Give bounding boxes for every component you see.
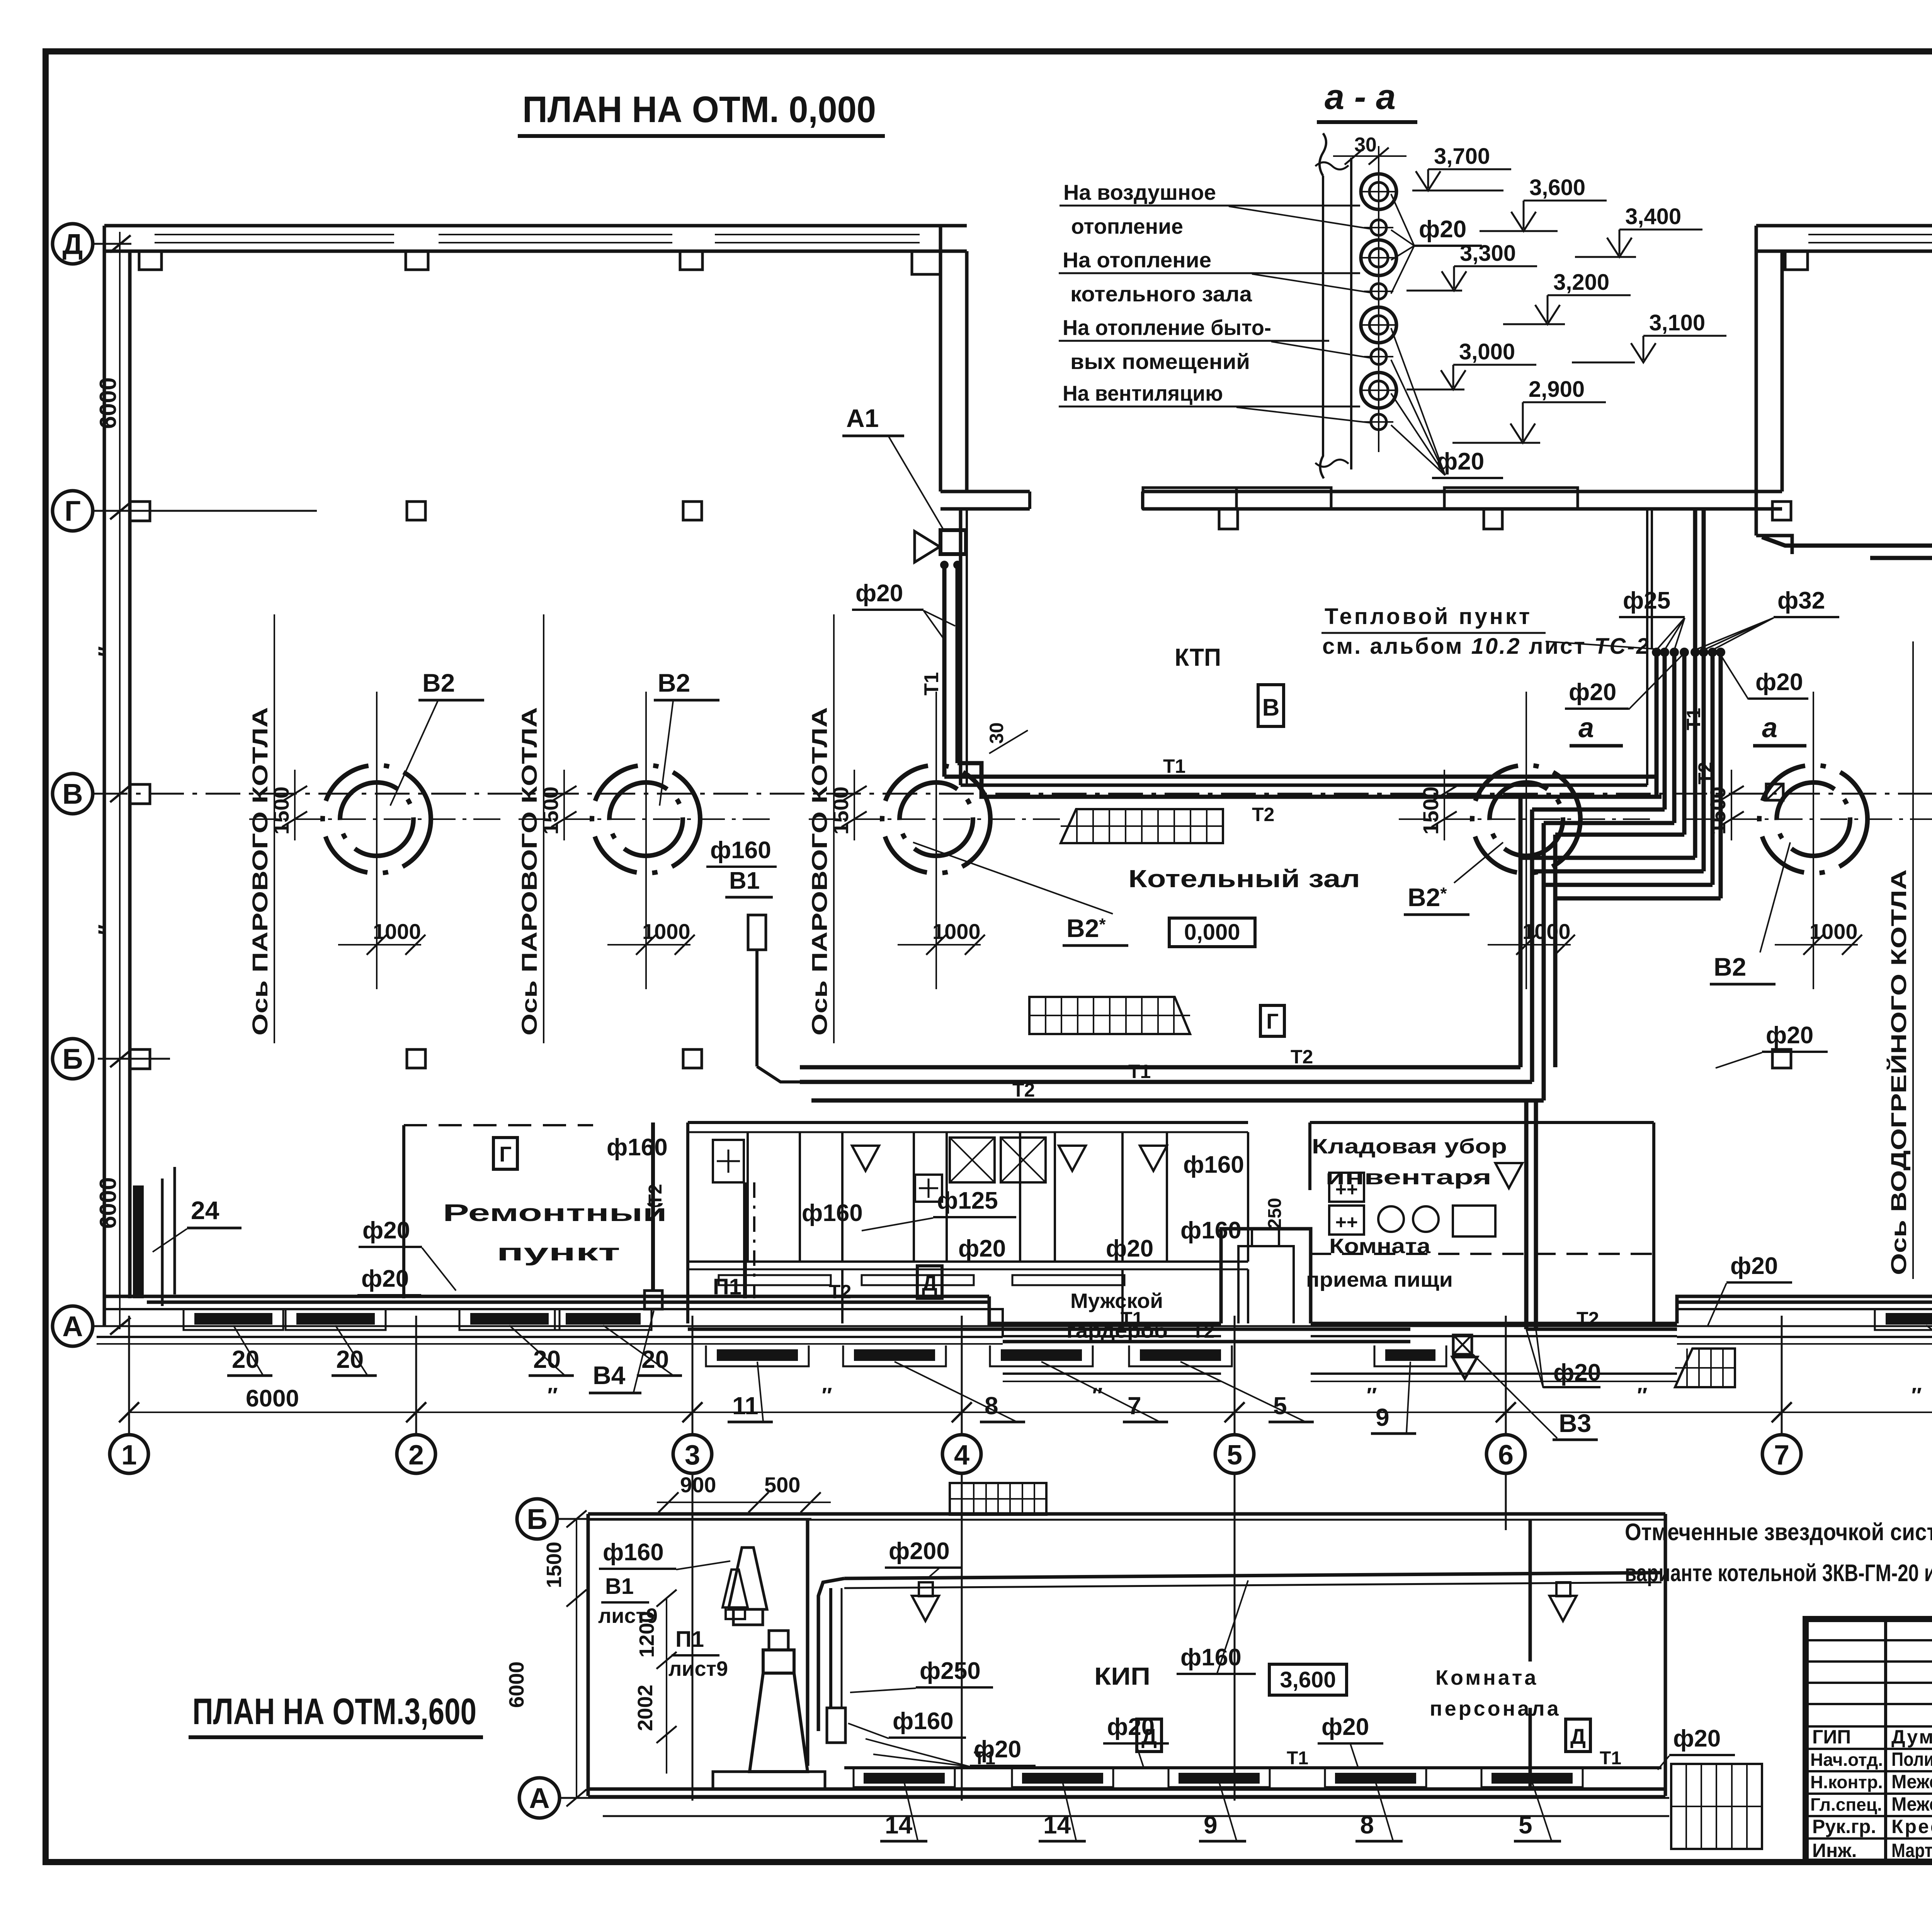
- svg-text:1000: 1000: [932, 919, 981, 944]
- bundle pipe 1 dot: [1652, 648, 1661, 657]
- pipe outlet small: [1371, 414, 1386, 430]
- radiator: [854, 1349, 935, 1361]
- Ф200 pipe: [844, 1573, 1662, 1578]
- urinal squares: [1329, 1173, 1364, 1202]
- boiler 2 axis line: [543, 614, 544, 1043]
- dim tick at axis А: [110, 1318, 131, 1335]
- В4 marker и riser: [651, 1122, 655, 1291]
- bundle risers up to wall: [1693, 509, 1697, 652]
- svg-text:500: 500: [764, 1473, 800, 1497]
- svg-text:лист9: лист9: [668, 1657, 728, 1680]
- svg-text:А: А: [529, 1782, 549, 1814]
- svg-text:3,000: 3,000: [1459, 339, 1515, 364]
- a-a underline: [1317, 120, 1417, 124]
- partition: [913, 1132, 915, 1262]
- column on axis Г: [407, 502, 425, 520]
- bundle pipe 4 dot: [1680, 648, 1689, 657]
- grid axis 5 line: [1234, 1316, 1236, 1435]
- radiator: [194, 1313, 272, 1325]
- middle wall pier 2: [1444, 488, 1578, 509]
- wavy top: [1315, 162, 1349, 170]
- dim chain outer: [576, 1519, 577, 1798]
- bundle pipe 7 dot: [1708, 648, 1717, 657]
- svg-text:ф20: ф20: [1766, 1022, 1813, 1049]
- svg-text:Тепловой пункт: Тепловой пункт: [1325, 604, 1532, 629]
- middle wall pier divider: [1235, 488, 1238, 509]
- column tick below middle wall 2: [1484, 509, 1502, 529]
- bundle pipe 1: [1655, 652, 1659, 797]
- boiler 2 horizontal centerline: [519, 818, 774, 820]
- window glazing lines: [1808, 234, 1932, 235]
- svg-text:1500: 1500: [1418, 786, 1443, 835]
- svg-text:1000: 1000: [1810, 919, 1858, 944]
- svg-text:Поливанов: Поливанов: [1891, 1748, 1932, 1770]
- entrance vestibule: [1221, 1229, 1311, 1323]
- ground line outer 2: [1677, 1336, 1932, 1338]
- boiler 2 outer circle: [592, 765, 700, 873]
- boiler 4 vertical centerline: [1526, 692, 1527, 989]
- pipe run left low 2: [1532, 871, 1704, 1082]
- svg-text:9: 9: [1204, 1811, 1218, 1839]
- svg-text:Ось ВОДОГРЕЙНОГО КОТЛА: Ось ВОДОГРЕЙНОГО КОТЛА: [1886, 869, 1911, 1275]
- svg-text:Д: Д: [1570, 1724, 1586, 1748]
- partition: [1247, 1132, 1249, 1262]
- axis А circle: [53, 1306, 93, 1346]
- vent box Д: [1137, 1719, 1162, 1752]
- bundle pipe 5: [1693, 652, 1697, 858]
- riser to bottom wall: [1524, 1100, 1529, 1329]
- risers to sanitary 1: [1519, 797, 1523, 858]
- svg-text:На отопление быто-: На отопление быто-: [1063, 315, 1271, 340]
- svg-text:6000: 6000: [95, 1177, 121, 1229]
- svg-text:5: 5: [1273, 1392, 1287, 1420]
- svg-text:Д: Д: [63, 228, 83, 260]
- svg-text:4: 4: [954, 1440, 969, 1471]
- grid 3 line to lower plan: [692, 1473, 694, 1801]
- pipe run left 3: [1544, 821, 1674, 825]
- pier below top wall: [139, 251, 162, 270]
- bottom wall middle stretch (lower): [989, 1296, 1221, 1323]
- grid axis 4 line: [961, 1316, 963, 1435]
- svg-text:30: 30: [986, 722, 1007, 744]
- axis В circle: [53, 774, 93, 814]
- dim tick grid: [1496, 1402, 1516, 1422]
- boiler 3 horizontal centerline: [809, 818, 1064, 820]
- svg-text:ф20: ф20: [1755, 669, 1803, 696]
- svg-text:Б: Б: [527, 1503, 547, 1535]
- dim tick grid: [1225, 1402, 1245, 1422]
- drain triangle 2: [1549, 1596, 1577, 1621]
- svg-text:Т2: Т2: [1577, 1308, 1599, 1330]
- lower radiator: [1492, 1773, 1573, 1784]
- svg-text:ф20: ф20: [1569, 679, 1616, 706]
- svg-text:Инж.: Инж.: [1812, 1840, 1857, 1861]
- svg-text:варианте котельной 3КВ-ГМ-20: варианте котельной 3КВ-ГМ-20 и 3ДЕ-16-14…: [1625, 1560, 1932, 1587]
- axis Д circle: [53, 224, 93, 264]
- axis Б line: [98, 1058, 170, 1060]
- svg-text:пункт: пункт: [497, 1239, 620, 1266]
- svg-text:Г: Г: [499, 1142, 512, 1166]
- grid axis 1 circle: [110, 1435, 148, 1473]
- bundle pipe 7: [1711, 652, 1715, 885]
- left wall outer: [103, 226, 106, 1325]
- radiator niche: [1875, 1309, 1932, 1330]
- svg-text:1500: 1500: [543, 1542, 566, 1588]
- svg-text:ПЛАН НА ОТМ.3,600: ПЛАН НА ОТМ.3,600: [192, 1691, 476, 1732]
- svg-text:14: 14: [885, 1811, 913, 1839]
- svg-text:Т2: Т2: [1694, 762, 1716, 784]
- svg-text:ф160: ф160: [1180, 1217, 1242, 1244]
- bottom dim line: [129, 1412, 1932, 1413]
- base box: [713, 1772, 825, 1789]
- B1 duct elbow: [757, 1066, 800, 1082]
- bundle pipe 2: [1663, 652, 1667, 810]
- svg-text:6000: 6000: [246, 1385, 299, 1412]
- sink unit: [713, 1140, 744, 1182]
- bundle pipe 3: [1672, 652, 1677, 823]
- grid axis 2 circle: [397, 1435, 435, 1473]
- bundle pipe 3 dot: [1670, 648, 1679, 657]
- radiator: [1140, 1349, 1221, 1361]
- radiator niche: [990, 1345, 1093, 1366]
- lower radiator: [1179, 1773, 1260, 1784]
- leaders to circles: [1229, 206, 1370, 229]
- svg-text:В2: В2: [422, 668, 455, 697]
- marker А1 triangle: [915, 531, 940, 562]
- lower radiator niche: [1012, 1768, 1113, 1787]
- svg-text:3,100: 3,100: [1649, 310, 1705, 335]
- marker А1 box: [940, 530, 966, 554]
- svg-text:На воздушное: На воздушное: [1063, 180, 1216, 204]
- pipe Т1 lower plan: [844, 1766, 1662, 1769]
- А1 riser pipes: [942, 565, 947, 777]
- boiler 4 dim 1500: [1444, 770, 1445, 840]
- svg-text:2002: 2002: [634, 1685, 657, 1731]
- svg-text:ф20: ф20: [958, 1235, 1006, 1262]
- svg-text:5: 5: [1519, 1811, 1532, 1839]
- riser centerline: [1378, 146, 1379, 452]
- В1 stack small: [723, 1570, 748, 1607]
- bundle pipe 6 dot: [1699, 648, 1708, 657]
- staircase near КТП: [1061, 809, 1223, 843]
- svg-text:Мартынова: Мартынова: [1891, 1840, 1932, 1861]
- boiler 3 dim 1000: [898, 944, 981, 946]
- В1 duct symbol: [748, 915, 766, 950]
- svg-text:Отмеченные звездочкой систе: Отмеченные звездочкой системы отсутствую…: [1625, 1519, 1932, 1546]
- В3 triangle: [1452, 1357, 1477, 1379]
- svg-text:Комната: Комната: [1329, 1235, 1431, 1258]
- svg-text:В4: В4: [593, 1361, 626, 1389]
- svg-text:Креерс: Креерс: [1891, 1816, 1932, 1837]
- boiler 5 dim 1500: [1731, 770, 1732, 840]
- svg-text:1000: 1000: [373, 919, 421, 944]
- КТП left wall: [959, 509, 963, 785]
- partition: [1019, 1132, 1021, 1262]
- svg-text:Ось ПАРОВОГО КОТЛА: Ось ПАРОВОГО КОТЛА: [517, 707, 541, 1036]
- right hall west wall inner: [1781, 251, 1784, 492]
- svg-text:На вентиляцию: На вентиляцию: [1063, 381, 1223, 405]
- lower plan bottom wall: [588, 1787, 1665, 1791]
- А1 riser pipe pair dots: [940, 561, 949, 569]
- pipe run left 1: [1520, 795, 1656, 799]
- valve В3 bowtie: [1453, 1335, 1472, 1354]
- ventilation box В: [1258, 685, 1284, 726]
- svg-text:ф160: ф160: [603, 1539, 664, 1566]
- svg-text:1: 1: [121, 1440, 137, 1471]
- boiler 3 inner circle: [900, 782, 973, 856]
- КТП bottom wall: [961, 784, 1647, 787]
- svg-text:В1: В1: [729, 867, 760, 894]
- bottom pipes right of vestibule: [1526, 1328, 1677, 1331]
- svg-text:″: ″: [1092, 1383, 1103, 1407]
- axis Г circle: [53, 491, 93, 531]
- svg-text:В2: В2: [1714, 952, 1746, 981]
- svg-text:″: ″: [822, 1383, 832, 1407]
- svg-text:ф200: ф200: [889, 1538, 950, 1565]
- grid axis 3 line: [692, 1316, 694, 1435]
- boiler 5 vertical centerline: [1813, 692, 1814, 989]
- КТП right wall thin: [1646, 509, 1648, 785]
- bundle pipe 6: [1702, 652, 1706, 871]
- middle top wall inner: [940, 507, 1030, 511]
- svg-text:Кладовая убор: Кладовая убор: [1312, 1135, 1507, 1158]
- radiator: [1385, 1349, 1435, 1361]
- boiler 2 inner circle: [609, 782, 683, 856]
- column on axis Б: [1772, 1049, 1791, 1068]
- grid axis 1 line: [128, 1316, 130, 1435]
- radiator: [1001, 1349, 1082, 1361]
- wc triangle meal: [1495, 1163, 1522, 1188]
- window glazing lines: [155, 234, 394, 235]
- bundle pipe 4: [1682, 652, 1687, 835]
- left hall top wall inner: [104, 250, 967, 253]
- column on axis Б: [683, 1049, 702, 1068]
- partition: [799, 1132, 801, 1262]
- radiator niche: [1374, 1345, 1446, 1366]
- svg-text:14: 14: [1043, 1811, 1071, 1839]
- svg-text:Т2: Т2: [829, 1281, 851, 1303]
- dim tick grid: [682, 1402, 702, 1422]
- pipe run left low 1: [1520, 858, 1695, 1067]
- sanitary left wall: [686, 1122, 689, 1323]
- svg-text:Т2: Т2: [1012, 1079, 1035, 1101]
- pipe elbow at left: [818, 1578, 844, 1731]
- svg-text:1000: 1000: [1522, 919, 1571, 944]
- svg-text:ф125: ф125: [937, 1187, 998, 1214]
- lower radiator niche: [1168, 1768, 1270, 1787]
- pier below top wall: [406, 251, 428, 270]
- svg-text:Ремонтный: Ремонтный: [443, 1200, 667, 1226]
- left hall east wall outer: [939, 226, 942, 492]
- underline: [189, 1735, 483, 1739]
- sink plus box mid: [915, 1175, 942, 1202]
- middle wall pier 1: [1143, 488, 1331, 509]
- mid ground line: [1003, 1372, 1221, 1375]
- svg-text:На отопление: На отопление: [1063, 248, 1211, 272]
- svg-text:а - а: а - а: [1325, 77, 1396, 117]
- left dim chain line: [119, 232, 121, 1329]
- radiator: [1886, 1313, 1932, 1325]
- bottom pipes Т2 left: [147, 1301, 989, 1304]
- svg-text:8: 8: [985, 1392, 998, 1420]
- pipe Т2 long to sanitary: [800, 1065, 1520, 1070]
- radiator 24 left wall: [133, 1185, 144, 1298]
- ventilation box Д: [917, 1266, 942, 1298]
- radiator niche: [459, 1309, 560, 1330]
- pipe outlet big: [1361, 174, 1396, 209]
- boiler 4 outer circle: [1472, 765, 1580, 873]
- pipe run left 4: [1555, 833, 1684, 837]
- boiler 3 dim 1500: [854, 770, 855, 840]
- svg-text:Гл.спец.: Гл.спец.: [1810, 1794, 1882, 1815]
- lower radiator niche: [1325, 1768, 1426, 1787]
- svg-text:250: 250: [1265, 1198, 1285, 1229]
- dim tick at axis Г: [110, 502, 131, 519]
- svg-text:9: 9: [1376, 1403, 1389, 1431]
- column on axis Б: [407, 1049, 425, 1068]
- column on axis Г: [1772, 502, 1791, 520]
- axis Б circle: [53, 1039, 93, 1079]
- repair room west wall: [402, 1125, 405, 1298]
- repair room top wall: [404, 1124, 593, 1126]
- dim tick grid: [119, 1402, 139, 1422]
- boiler 4 dim 1000: [1488, 944, 1571, 946]
- svg-text:Комната: Комната: [1435, 1666, 1538, 1689]
- lower plan axis Б circle: [517, 1499, 557, 1539]
- svg-text:ф20: ф20: [1107, 1714, 1155, 1740]
- partition: [1054, 1132, 1056, 1262]
- svg-text:Т2: Т2: [1252, 804, 1274, 825]
- boiler 1 axis line: [274, 614, 275, 1043]
- bottom pipes mid: [688, 1328, 1410, 1331]
- svg-text:Т1: Т1: [920, 672, 943, 696]
- chimney stack symbol: [728, 1548, 767, 1609]
- pier below top wall: [680, 251, 702, 270]
- dim tick at axis В: [110, 785, 131, 802]
- radiator niche: [843, 1345, 946, 1366]
- radiator niche: [555, 1309, 651, 1330]
- svg-text:Т2: Т2: [1291, 1046, 1313, 1068]
- boiler 1 outer circle: [323, 765, 431, 873]
- grid axis 4 circle: [942, 1435, 981, 1473]
- svg-text:1000: 1000: [642, 919, 690, 944]
- svg-text:Рук.гр.: Рук.гр.: [1812, 1816, 1876, 1837]
- deaerator funnel: [750, 1673, 808, 1772]
- svg-text:6000: 6000: [95, 378, 121, 429]
- left wall pier at Б: [130, 1049, 150, 1069]
- radiator niche: [184, 1309, 283, 1330]
- right hall west wall outer: [1755, 226, 1758, 536]
- bundle pipe 5 dot: [1690, 648, 1700, 657]
- boiler 3 vertical centerline: [935, 692, 937, 989]
- radiator niche: [286, 1309, 386, 1330]
- svg-text:В1: В1: [605, 1574, 634, 1599]
- partition: [1166, 1132, 1168, 1262]
- window glazing lines: [715, 234, 920, 235]
- svg-text:отопление: отопление: [1071, 214, 1183, 238]
- svg-text:″: ″: [94, 646, 119, 657]
- П1 riser pipes: [743, 1182, 747, 1298]
- svg-text:Т1: Т1: [1683, 708, 1704, 730]
- cloakroom benches: [719, 1275, 831, 1285]
- svg-text:а: а: [1578, 713, 1594, 743]
- bundle pipe 8: [1719, 652, 1723, 898]
- svg-text:1200: 1200: [635, 1611, 658, 1658]
- boiler 5 dim 1000: [1775, 944, 1858, 946]
- partition: [841, 1132, 844, 1262]
- column on axis Г: [683, 502, 702, 520]
- radiator niche: [1129, 1345, 1232, 1366]
- svg-text:5: 5: [1227, 1440, 1242, 1471]
- vent box Д2: [1566, 1719, 1590, 1752]
- svg-text:ГИП: ГИП: [1812, 1726, 1851, 1748]
- svg-text:Межсаргс: Межсаргс: [1891, 1771, 1932, 1793]
- svg-text:Ось ПАРОВОГО КОТЛА: Ось ПАРОВОГО КОТЛА: [248, 707, 272, 1036]
- svg-text:см. альбом 10.2 лист ТС-2: см. альбом 10.2 лист ТС-2: [1322, 634, 1650, 659]
- svg-text:КИП: КИП: [1094, 1662, 1150, 1690]
- staircase mid hall: [1029, 997, 1190, 1034]
- grid axis 6 circle: [1486, 1435, 1525, 1473]
- svg-text:вых помещений: вых помещений: [1070, 349, 1250, 374]
- svg-text:ПЛАН НА ОТМ. 0,000: ПЛАН НА ОТМ. 0,000: [522, 89, 876, 130]
- dim chain inner: [666, 1598, 667, 1774]
- svg-text:Думан: Думан: [1891, 1726, 1932, 1748]
- grid axis 2 line: [415, 1316, 417, 1435]
- axis А line: [560, 1797, 1669, 1799]
- level box 0,000: [1169, 918, 1255, 947]
- bundle pipe 8 dot: [1716, 648, 1725, 657]
- small tank: [827, 1708, 845, 1743]
- pipe outlet big: [1361, 240, 1396, 276]
- pier below top wall: [1785, 251, 1808, 270]
- КТП west wall line 2: [966, 509, 968, 785]
- staircase right hall bottom: [1675, 1349, 1735, 1387]
- boiler 4 horizontal centerline: [1399, 818, 1654, 820]
- sanitary mid horizontal wall: [688, 1260, 1248, 1263]
- svg-text:1500: 1500: [269, 786, 293, 835]
- boiler 3 outer circle: [882, 765, 990, 873]
- svg-text:ф160: ф160: [710, 837, 771, 864]
- svg-text:ф160: ф160: [1183, 1151, 1244, 1178]
- pipe Т1 top right: [1762, 537, 1932, 546]
- boiler 5 axis line: [1912, 641, 1914, 1279]
- lower plan right wall: [1664, 1514, 1667, 1796]
- partition: [1121, 1132, 1124, 1262]
- svg-text:Т1: Т1: [1128, 1061, 1151, 1082]
- dim tick at axis Д: [110, 235, 131, 252]
- svg-text:8: 8: [1360, 1811, 1374, 1839]
- pipe Т2b long to sanitary: [811, 1099, 1544, 1103]
- partition personnel room: [1529, 1520, 1532, 1662]
- svg-text:В2: В2: [658, 668, 690, 697]
- pipe outlet big: [1361, 307, 1396, 343]
- grid axis 5 circle: [1215, 1435, 1254, 1473]
- lower radiator: [1022, 1773, 1103, 1784]
- lower radiator: [864, 1773, 945, 1784]
- ventilation box Г left: [493, 1138, 517, 1169]
- svg-text:Межсаргс: Межсаргс: [1891, 1793, 1932, 1815]
- svg-text:3,700: 3,700: [1434, 144, 1490, 169]
- pipe run left 2: [1532, 808, 1665, 812]
- svg-text:Н.контр.: Н.контр.: [1810, 1772, 1883, 1792]
- column tick below middle wall 1: [1219, 509, 1238, 529]
- svg-text:П1: П1: [713, 1274, 742, 1299]
- pipe outlet small: [1371, 220, 1386, 235]
- middle top wall outer: [940, 490, 1030, 493]
- pipe run left low 4: [1555, 898, 1721, 1067]
- svg-text:1500: 1500: [1706, 786, 1730, 835]
- grid axis 6 line: [1505, 1316, 1507, 1435]
